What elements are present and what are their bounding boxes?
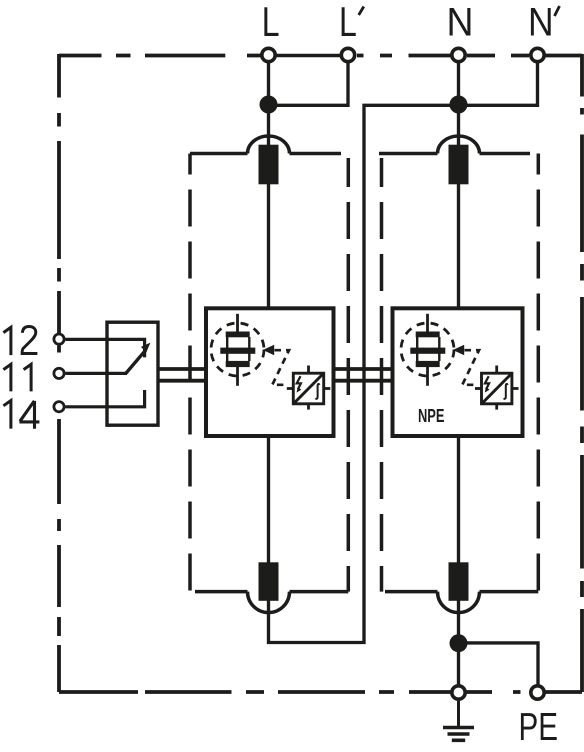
wire: L down to junction (267, 56, 270, 105)
wire: terminal 14 line (66, 390, 145, 407)
integral glyph (504, 384, 508, 399)
terminal PE (531, 686, 544, 699)
terminal 12 (54, 334, 64, 344)
svg-text:PE: PE (519, 706, 559, 749)
left varistor module box U1 (206, 308, 334, 436)
svg-text:NPE: NPE (418, 405, 445, 426)
ground symbol (443, 701, 474, 740)
label 12 (3, 327, 37, 356)
wire: N branch through right module (457, 105, 460, 147)
right module thermal disconnect (top): contact block (449, 145, 469, 185)
left module: status indicator square (287, 366, 331, 410)
changeover switch arm (126, 350, 146, 373)
wire: L' down and left to junction (269, 56, 349, 106)
left module dashed enclosure (190, 154, 348, 592)
remote signalling contact box (107, 322, 158, 425)
wire: N down to junction (457, 56, 460, 105)
terminal L (262, 48, 275, 61)
terminal N' (531, 48, 544, 61)
wire: N-PE gap bottom to PE terminal (459, 643, 539, 685)
svg-text:N: N (528, 1, 554, 45)
junction node at N-PE bottom (450, 634, 468, 652)
integral glyph (315, 384, 319, 399)
fuse element (236, 314, 239, 332)
junction node at N (450, 96, 468, 114)
frame right edge (580, 54, 584, 692)
wire: to earthing terminal (457, 643, 460, 685)
actuating arrow (263, 345, 274, 355)
right module: monitored disconnect symbol (dashed circle) (401, 314, 479, 386)
flash glyph (485, 376, 489, 389)
label 11 (3, 364, 31, 391)
svg-text:N: N (447, 1, 474, 45)
dashed action line (462, 350, 479, 385)
right module thermal disconnect (top): arc (438, 136, 480, 153)
left module: monitored disconnect symbol (dashed circle) (211, 314, 289, 386)
left module disconnect (bottom): cup arc (248, 592, 290, 613)
device boundary frame (dash-dot), measured segments (59, 54, 582, 692)
left module thermal disconnect (top): contact block (259, 145, 279, 185)
junction node at L (260, 96, 278, 114)
right module dashed enclosure (379, 154, 538, 592)
terminal L' (341, 48, 354, 61)
terminal N (452, 48, 465, 61)
wire: L branch through left module (top section) (267, 105, 270, 147)
dashed action line (272, 350, 289, 385)
terminal 11 (54, 368, 64, 378)
left module thermal disconnect (top): arc (248, 136, 290, 153)
signalling bus lines to modules (158, 367, 206, 371)
frame left edge (57, 54, 61, 692)
right N-PE module box U2 (393, 308, 523, 436)
svg-text:L: L (339, 0, 357, 45)
label 14 (3, 401, 39, 429)
wire: terminal 11 line (66, 372, 128, 375)
wire: N' down and left to junction (459, 56, 538, 106)
wire: terminal 12 line (66, 339, 145, 357)
wire: top link L to L' (269, 54, 349, 57)
actuating arrow (453, 345, 464, 355)
svg-text:L: L (262, 0, 280, 45)
terminal 14 (54, 402, 64, 412)
right module disconnect (bottom): contact block (449, 562, 469, 601)
terminal earth (452, 686, 465, 699)
frame top edge (59, 54, 582, 58)
left module disconnect (bottom): contact block (259, 562, 279, 601)
flash glyph (297, 376, 301, 389)
fuse element (426, 314, 429, 332)
frame bottom edge (59, 690, 582, 694)
wire: varistor branch bottom to N node (riser) (269, 105, 459, 642)
right module disconnect (bottom): cup arc (438, 592, 480, 613)
right module: status indicator square (475, 366, 519, 410)
